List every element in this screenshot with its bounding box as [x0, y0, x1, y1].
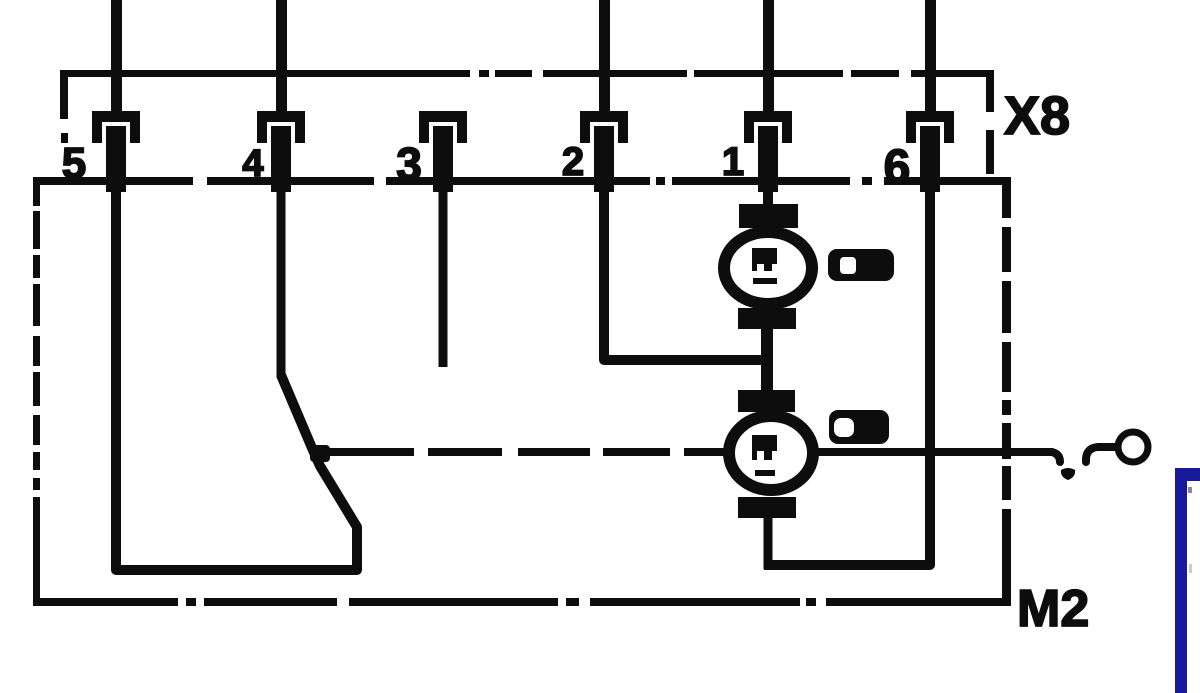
svg-text:3: 3	[396, 138, 422, 190]
connector X8 boundary right edge	[986, 70, 994, 174]
wire pin 1 to motor M top	[763, 183, 773, 208]
socket pin 2 of X8	[580, 111, 628, 192]
wire motor 2 bottom down	[764, 515, 773, 569]
svg-text:1: 1	[722, 140, 744, 184]
socket pin 3 of X8	[419, 111, 467, 192]
indicator icon beside motor 1	[828, 249, 894, 281]
wire stub pin 3 down	[439, 183, 448, 367]
device M2 boundary left edge	[33, 177, 40, 604]
device M2 boundary right edge	[1002, 181, 1011, 606]
switch lever	[1086, 447, 1117, 462]
device M2 boundary top edge (bus line)	[33, 177, 1011, 185]
dashed wire to motor 2 left brush	[310, 445, 728, 462]
svg-text:6: 6	[884, 141, 911, 194]
svg-text:4: 4	[242, 143, 263, 185]
indicator icon beside motor 2	[829, 410, 889, 444]
wire pin 5 down, along bottom, up-diagonal to pin 4	[116, 185, 357, 570]
wire top pin 6	[925, 0, 936, 118]
speck inside blue frame	[1188, 487, 1192, 493]
blue frame corner top border	[1175, 468, 1200, 481]
connector X8 boundary top dash-dot line	[60, 70, 991, 77]
wire top pin 4	[276, 0, 287, 118]
wire pin 6 down and left to motor bottom	[764, 183, 930, 565]
socket pin 6 of X8	[906, 111, 954, 192]
svg-text:X8: X8	[1004, 86, 1070, 146]
svg-text:5: 5	[62, 139, 86, 188]
wire top pin 1	[763, 0, 774, 118]
faint speck inside blue frame	[1189, 564, 1192, 573]
svg-text:2: 2	[562, 140, 584, 184]
socket pin 1 of X8	[744, 111, 792, 192]
wire motor 2 right brush to switch	[813, 452, 1060, 462]
blue frame corner left border	[1175, 468, 1187, 693]
wire pin 2 down and right to motor link	[604, 183, 770, 360]
connector X8 boundary left edge	[60, 70, 68, 143]
device M2 boundary bottom edge	[33, 598, 1011, 606]
svg-text:M2: M2	[1017, 580, 1089, 638]
motor armature 2 (lower)	[729, 390, 813, 518]
socket pin 4 of X8	[257, 111, 305, 192]
switch contact dot	[1061, 468, 1075, 480]
wire link motor 1 bottom to motor 2 top	[761, 326, 773, 394]
motor armature 1 (upper)	[724, 204, 812, 329]
wire pin 4 down	[277, 183, 286, 377]
wire top pin 5	[111, 0, 122, 118]
socket pin 5 of X8	[92, 111, 140, 192]
wire top pin 2	[599, 0, 610, 118]
switch terminal circle	[1118, 432, 1148, 462]
